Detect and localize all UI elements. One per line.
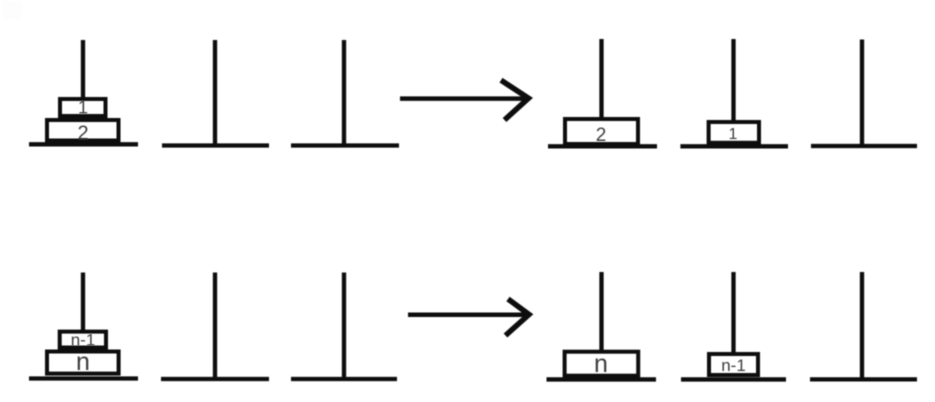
svg-text:n: n <box>594 350 608 378</box>
svg-text:2: 2 <box>596 125 607 146</box>
svg-text:2: 2 <box>77 123 88 145</box>
svg-text:n-1: n-1 <box>721 356 746 375</box>
svg-text:n-1: n-1 <box>71 331 96 350</box>
svg-text:1: 1 <box>78 98 88 118</box>
svg-text:1: 1 <box>729 126 738 143</box>
svg-text:n: n <box>76 348 90 376</box>
